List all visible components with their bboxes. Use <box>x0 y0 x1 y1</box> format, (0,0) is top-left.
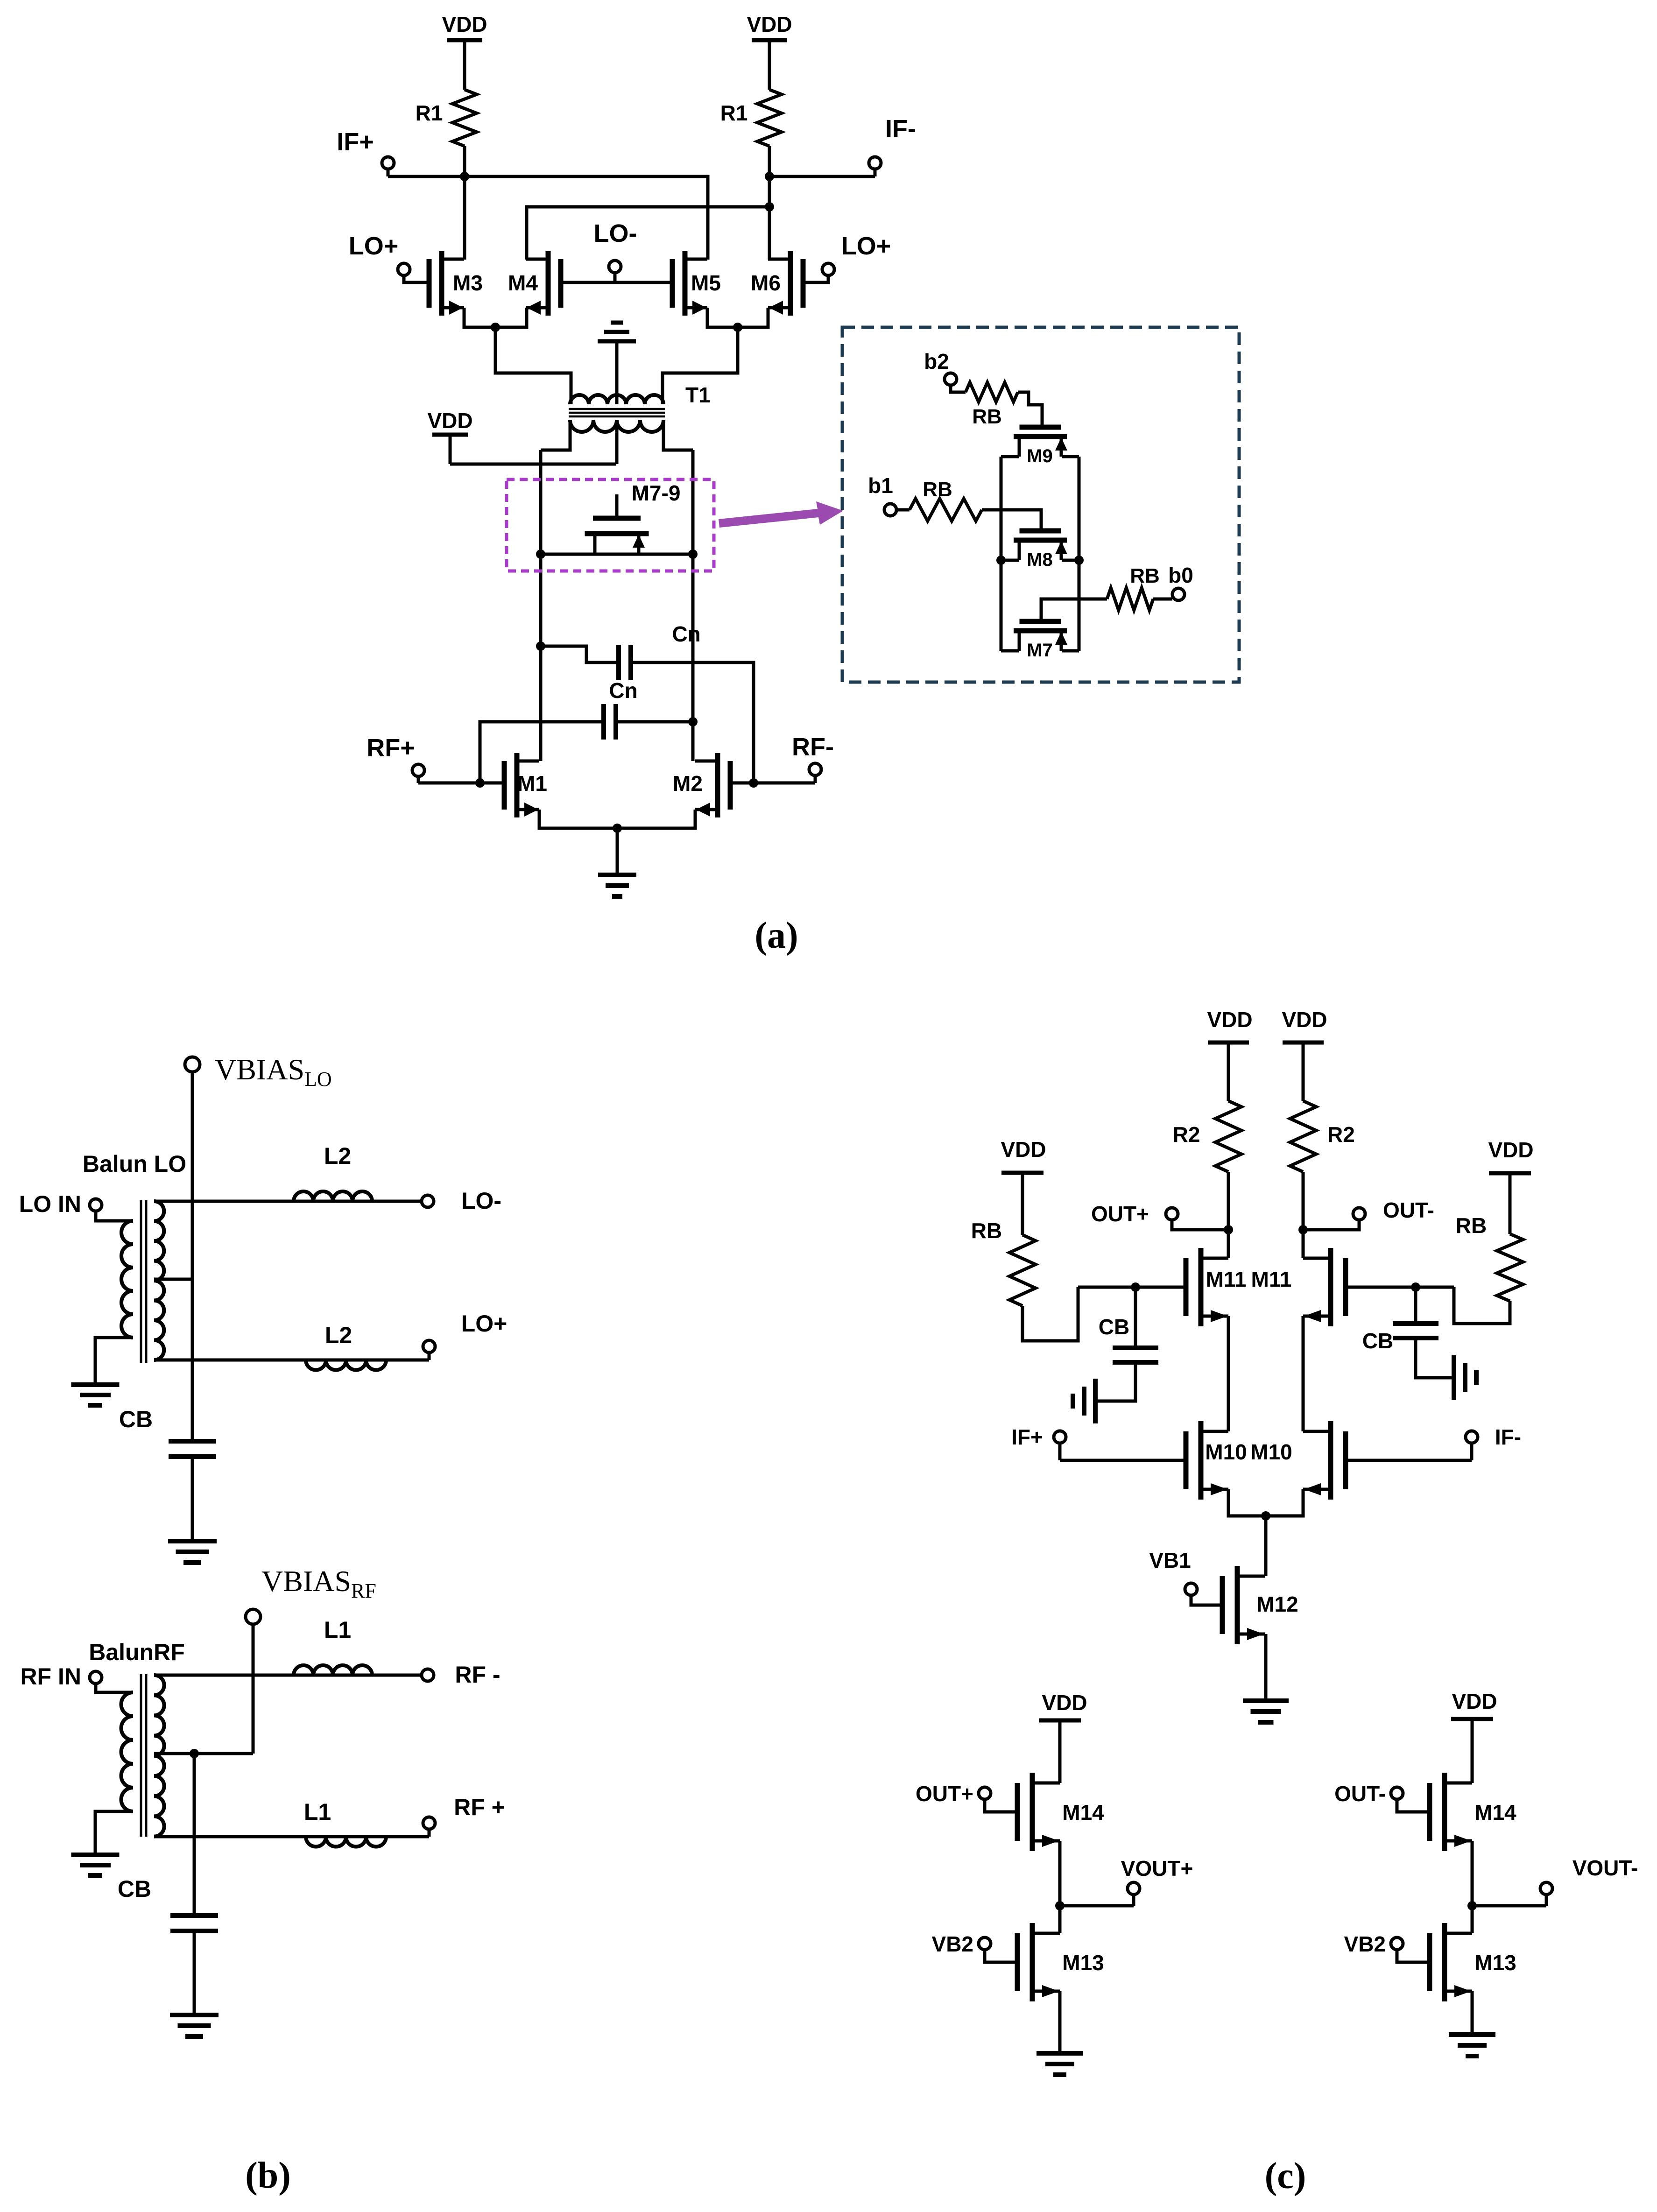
wire LO- gate line M4-M5 <box>561 281 672 284</box>
wire LO+ left gate lead <box>404 275 429 282</box>
transformer T1 core <box>569 408 665 410</box>
wire cross-couple net from M4 drain to right rail <box>527 207 769 260</box>
svg-text:RF IN: RF IN <box>20 1663 81 1690</box>
wire switch bottom net <box>541 553 693 556</box>
svg-text:Cn: Cn <box>609 678 637 703</box>
svg-text:OUT+: OUT+ <box>1091 1202 1149 1226</box>
wire RF- net <box>154 1674 422 1677</box>
wire R2 left to OUT+ node and M11 drain <box>1227 1172 1230 1258</box>
svg-text:CB: CB <box>1362 1329 1393 1353</box>
transformer T1 secondary winding <box>570 420 663 432</box>
node CB tap left junction dot <box>1131 1282 1140 1292</box>
svg-text:CB: CB <box>1099 1315 1129 1339</box>
svg-text:M10: M10 <box>1205 1440 1247 1464</box>
svg-text:M6: M6 <box>751 271 781 295</box>
svg-text:M4: M4 <box>508 271 538 295</box>
wire M8 left lead <box>1001 559 1019 562</box>
resistor RB right <box>1497 1234 1523 1301</box>
svg-text:RB: RB <box>1130 564 1160 587</box>
svg-text:RB: RB <box>923 478 952 501</box>
wire LO IN to balun primary <box>96 1212 133 1221</box>
ground below M12 <box>1243 1698 1289 1703</box>
wire R1 right bottom rail to M6 drain <box>768 146 771 260</box>
terminal VOUT+ <box>1128 1882 1140 1895</box>
terminal RF+ <box>412 764 424 776</box>
node center tap junction dot (CB) <box>190 1749 199 1758</box>
capacitor CB (balun RF) <box>170 1913 218 1918</box>
terminal VBIAS_LO <box>185 1057 200 1072</box>
wire tail node to M12 drain <box>1264 1516 1268 1576</box>
svg-text:M11: M11 <box>1251 1267 1292 1291</box>
node CB tap right junction dot <box>1411 1282 1420 1292</box>
transistor M6 <box>788 251 793 316</box>
wire M13 left source to ground <box>1058 1991 1062 2053</box>
svg-text:Cn: Cn <box>672 622 700 646</box>
wire M11 left source to M10 left drain <box>1227 1316 1230 1431</box>
wire M11 right source to M10 right drain <box>1302 1316 1305 1431</box>
wire VOUT- tap <box>1472 1904 1546 1908</box>
wire RF IN to balun primary <box>96 1685 133 1692</box>
svg-text:IF-: IF- <box>1495 1425 1521 1449</box>
node M1/M2 source junction dot <box>613 824 622 833</box>
svg-text:R2: R2 <box>1327 1122 1355 1147</box>
svg-text:BalunRF: BalunRF <box>89 1639 185 1665</box>
terminal IF+ (section c) <box>1054 1431 1066 1443</box>
node M10 common source junction dot <box>1261 1511 1270 1521</box>
svg-text:M13: M13 <box>1062 1951 1104 1975</box>
svg-text:IF-: IF- <box>885 115 916 143</box>
wire VBIAS_LO vertical <box>191 1072 194 1441</box>
wire VDD to M14 left drain <box>1058 1754 1062 1783</box>
svg-text:VOUT+: VOUT+ <box>1121 1856 1193 1881</box>
node M8 left junction dot <box>996 556 1006 565</box>
wire T1 secondary center tap <box>615 420 619 464</box>
power symbol VDD (R2 right) <box>1302 1043 1305 1101</box>
wire RF+ gate lead <box>418 782 504 785</box>
svg-text:VDD: VDD <box>1001 1137 1046 1162</box>
transistor M10 right <box>1328 1421 1333 1500</box>
svg-text:M1: M1 <box>517 771 547 796</box>
wire RB to M7 gate <box>1041 599 1107 612</box>
terminal LO+ right <box>822 263 834 275</box>
wire IF- net <box>769 175 875 178</box>
svg-text:VDD: VDD <box>1452 1689 1497 1713</box>
node VOUT+ junction dot <box>1055 1901 1065 1910</box>
node IF+ junction dot <box>460 172 469 181</box>
resistor RB left <box>1009 1235 1036 1306</box>
node switch left junction dot <box>536 549 545 559</box>
wire LO+ right gate lead <box>803 275 828 282</box>
node cross-couple junction dot on right rail <box>765 202 774 211</box>
wire left rail (T1 secondary left / switch / Cn / M1 drain) <box>539 450 543 761</box>
terminal LO- <box>422 1195 434 1207</box>
svg-text:RB: RB <box>972 405 1002 428</box>
ground below CB (balun LO) <box>168 1539 217 1543</box>
wire T1 secondary right terminal to right rail <box>663 420 693 450</box>
svg-text:R1: R1 <box>416 101 443 125</box>
wire b1 RB to M8 gate <box>982 510 1041 522</box>
svg-text:M2: M2 <box>673 771 703 796</box>
svg-text:(a): (a) <box>754 915 798 956</box>
svg-text:M3: M3 <box>453 271 483 295</box>
terminal RF IN <box>90 1671 102 1684</box>
power symbol VDD (RB right) <box>1509 1173 1512 1234</box>
balun LO core <box>140 1200 142 1363</box>
power symbol VDD right (section a) <box>768 40 771 90</box>
wire source to ground <box>616 828 619 875</box>
wire M5/M6 source to transformer primary right <box>663 327 738 404</box>
svg-text:R2: R2 <box>1173 1122 1200 1147</box>
terminal OUT+ (buffer left) <box>979 1787 991 1799</box>
wire detail left rail <box>1000 457 1003 651</box>
capacitor CB (balun LO) <box>169 1439 216 1444</box>
svg-text:VDD: VDD <box>1207 1007 1252 1032</box>
wire VDD to M14 right drain <box>1471 1754 1474 1783</box>
svg-text:VOUT-: VOUT- <box>1572 1856 1638 1880</box>
svg-text:OUT-: OUT- <box>1334 1782 1386 1806</box>
wire CB vertical (balun RF) <box>193 1754 196 1916</box>
wire LO- net <box>154 1200 422 1203</box>
transistor M7-9 switch (gate up) <box>615 494 619 518</box>
svg-text:CB: CB <box>118 1876 151 1902</box>
wire balun LO primary bottom to ground <box>95 1338 133 1385</box>
inductor L1 top <box>294 1665 372 1675</box>
svg-text:LO+: LO+ <box>349 232 399 260</box>
svg-text:L2: L2 <box>325 1322 352 1348</box>
wire RF+ net <box>154 1835 429 1839</box>
transistor M14 right <box>1442 1773 1447 1851</box>
transformer T1 primary winding <box>570 395 663 404</box>
terminal IF+ <box>382 157 394 169</box>
svg-text:L2: L2 <box>324 1143 351 1169</box>
wire balun RF primary bottom to ground <box>95 1811 133 1855</box>
svg-text:b1: b1 <box>868 473 893 498</box>
terminal OUT+ <box>1166 1208 1178 1220</box>
svg-text:RF -: RF - <box>455 1662 500 1688</box>
wire ground stem to T1 primary center tap <box>615 341 619 404</box>
wire upper Cn right lead to M2 gate <box>631 662 754 783</box>
node lower Cn right junction dot on right rail <box>688 717 698 726</box>
svg-text:LO IN: LO IN <box>19 1191 81 1217</box>
terminal LO IN <box>90 1199 102 1211</box>
svg-text:LO-: LO- <box>594 219 637 247</box>
transistor M9 (horizontal) <box>1041 419 1044 428</box>
node IF- junction dot <box>765 172 774 181</box>
svg-text:VB2: VB2 <box>1344 1932 1386 1956</box>
capacitor Cn upper <box>616 645 621 680</box>
resistor R1 right <box>757 90 782 146</box>
svg-text:(b): (b) <box>245 2155 291 2196</box>
svg-text:RB: RB <box>971 1219 1002 1243</box>
node M5/M6 source junction dot <box>733 323 742 332</box>
svg-text:b0: b0 <box>1168 563 1193 587</box>
wire CB to ground (balun RF) <box>193 1931 196 2015</box>
ground above transformer T1 (inverted) <box>598 339 636 344</box>
node OUT- junction dot <box>1298 1225 1308 1234</box>
node switch right junction dot <box>688 549 698 559</box>
node M2 gate junction dot <box>749 778 758 788</box>
transistor M7 (horizontal) <box>1040 612 1043 621</box>
wire lower Cn left lead from M1 gate <box>480 722 604 783</box>
wire M3 drain to IF+ node <box>463 176 466 260</box>
wire R2 right to OUT- node and M11 drain <box>1302 1172 1305 1258</box>
wire b2 RB to M9 gate <box>1018 392 1042 419</box>
transistor M1 <box>515 753 520 817</box>
ground below M1/M2 <box>598 873 636 877</box>
balun LO secondary winding <box>154 1201 164 1360</box>
svg-text:VDD: VDD <box>747 12 792 36</box>
wire RB right to gate line <box>1454 1287 1510 1324</box>
wire M14 right source to VOUT- node <box>1471 1841 1474 1933</box>
transistor M8 (horizontal) <box>1040 522 1043 531</box>
power symbol VDD left (section a) <box>463 40 466 90</box>
wire IF+ gate lead (section c) <box>1060 1459 1186 1462</box>
wire RB left to gate line <box>1022 1287 1078 1341</box>
terminal RF- <box>422 1669 434 1681</box>
wire M3/M4 common source net <box>464 308 527 327</box>
resistor R2 left <box>1215 1101 1241 1172</box>
svg-text:VDD: VDD <box>427 409 472 433</box>
transistor M12 <box>1235 1566 1240 1644</box>
svg-text:OUT+: OUT+ <box>916 1782 973 1806</box>
svg-text:M5: M5 <box>691 271 721 295</box>
svg-text:RF-: RF- <box>792 733 834 761</box>
svg-text:IF+: IF+ <box>337 128 374 156</box>
wire balun LO center tap <box>154 1278 192 1281</box>
svg-text:VDD: VDD <box>1042 1691 1087 1715</box>
transistor M4 <box>546 251 551 316</box>
terminal b0 <box>1172 588 1185 600</box>
wire M1/M2 common source net <box>539 810 695 828</box>
power symbol VDD (M14 right) <box>1471 1719 1474 1754</box>
svg-text:VB2: VB2 <box>932 1932 973 1956</box>
transistor M14 left <box>1030 1773 1035 1851</box>
terminal IF- <box>869 157 881 169</box>
svg-text:LO+: LO+ <box>461 1310 508 1337</box>
navy dashed detail box <box>842 327 1239 682</box>
wire R1 bottom to IF+ node <box>463 146 466 176</box>
terminal OUT- <box>1353 1208 1365 1220</box>
terminal OUT- (buffer right) <box>1391 1787 1403 1799</box>
wire M10 common source net <box>1228 1489 1303 1516</box>
capacitor CB left <box>1134 1287 1137 1348</box>
wire IF- gate lead (section c) <box>1346 1459 1472 1462</box>
wire M3/M4 source to transformer primary left <box>495 327 571 404</box>
wire M7 left lead <box>1001 649 1019 653</box>
svg-text:M9: M9 <box>1027 446 1053 466</box>
wire CB left to ground <box>1095 1362 1135 1401</box>
balun RF secondary winding <box>154 1675 164 1837</box>
transistor M13 left <box>1030 1923 1035 2001</box>
svg-text:VDD: VDD <box>1488 1138 1533 1162</box>
node M1 gate junction dot <box>475 778 485 788</box>
wire LO+ net <box>154 1359 429 1362</box>
ground CB left (sideways) <box>1093 1379 1098 1423</box>
svg-text:CB: CB <box>119 1406 153 1432</box>
svg-text:M7: M7 <box>1027 640 1053 661</box>
ground balun LO <box>71 1382 120 1387</box>
terminal b1 <box>884 504 896 516</box>
terminal RF+ <box>423 1817 435 1829</box>
node upper Cn left junction dot <box>536 641 545 651</box>
inductor L2 bottom <box>306 1360 386 1370</box>
wire M8 right lead <box>1062 559 1079 562</box>
node OUT+ junction dot <box>1224 1225 1233 1234</box>
svg-text:RF +: RF + <box>454 1794 505 1820</box>
wire M11 left gate line <box>1078 1286 1186 1289</box>
svg-text:LO+: LO+ <box>841 232 891 260</box>
svg-text:M14: M14 <box>1474 1800 1516 1825</box>
svg-text:(c): (c) <box>1265 2156 1306 2197</box>
svg-text:M10: M10 <box>1250 1440 1292 1464</box>
terminal VB1 <box>1185 1583 1197 1595</box>
wire VDD to center tap <box>450 463 616 466</box>
node M8 right junction dot <box>1074 556 1084 565</box>
capacitor Cn lower <box>601 704 606 740</box>
transistor M5 <box>683 251 688 316</box>
wire IF+ net horizontal and drop to M5 drain <box>388 176 708 260</box>
wire upper Cn left lead <box>541 646 619 662</box>
wire M11 right gate line <box>1346 1286 1454 1289</box>
svg-text:L1: L1 <box>324 1617 351 1643</box>
wire M9 left lead to left rail <box>1001 455 1019 458</box>
wire CB to ground <box>191 1457 194 1541</box>
wire M13 right source to ground <box>1471 1991 1474 2035</box>
wire M12 source to ground <box>1264 1634 1268 1701</box>
terminal VOUT- <box>1540 1882 1552 1895</box>
wire VBIAS_RF vertical to center tap <box>252 1624 255 1754</box>
terminal b2 <box>945 373 957 385</box>
wire M7 right lead <box>1062 649 1079 653</box>
ground balun RF <box>71 1853 120 1857</box>
wire M9 right lead to right rail <box>1062 455 1079 458</box>
wire detail right rail <box>1078 457 1081 651</box>
svg-text:RB: RB <box>1456 1213 1487 1238</box>
svg-text:T1: T1 <box>685 383 711 407</box>
terminal VBIAS_RF <box>246 1609 261 1624</box>
inductor L2 top <box>294 1191 372 1201</box>
node M3/M4 source junction dot <box>491 323 500 332</box>
balun RF primary winding <box>121 1692 134 1811</box>
wire M14 left source to VOUT+ node <box>1058 1841 1062 1933</box>
wire CB right to ground <box>1416 1338 1454 1378</box>
wire balun RF center tap <box>154 1752 253 1755</box>
power symbol VDD (M14 left) <box>1058 1720 1062 1754</box>
svg-text:RF+: RF+ <box>367 734 415 762</box>
power symbol VDD mid (T1 center tap) <box>449 435 452 464</box>
wire b0 to RB <box>1153 598 1172 601</box>
balun RF core <box>140 1674 142 1837</box>
svg-text:M11: M11 <box>1206 1267 1247 1291</box>
svg-text:M12: M12 <box>1256 1592 1298 1616</box>
purple annotation arrow to detail box <box>719 501 843 528</box>
power symbol VDD (RB left) <box>1021 1173 1024 1235</box>
svg-text:M8: M8 <box>1027 549 1053 570</box>
terminal LO- <box>609 261 621 273</box>
terminal VB2 (right) <box>1391 1937 1403 1950</box>
wire T1 secondary left terminal to left rail <box>541 420 570 450</box>
wire right rail (T1 secondary right / switch / Cn / M2 drain) <box>691 450 695 761</box>
ground below CB (balun RF) <box>170 2013 219 2017</box>
capacitor CB right <box>1414 1287 1417 1324</box>
node VOUT- junction dot <box>1467 1901 1477 1910</box>
terminal LO+ left <box>398 263 410 275</box>
svg-text:Balun LO: Balun LO <box>83 1151 186 1177</box>
transistor M11 left <box>1199 1248 1204 1326</box>
svg-text:VDD: VDD <box>442 12 487 36</box>
svg-text:LO-: LO- <box>461 1188 501 1214</box>
ground CB right (sideways) <box>1452 1355 1456 1400</box>
svg-text:L1: L1 <box>304 1799 331 1825</box>
transistor M3 <box>439 251 444 316</box>
terminal IF- (section c) <box>1466 1431 1478 1443</box>
wire RF- gate lead <box>730 782 815 785</box>
svg-text:M14: M14 <box>1062 1800 1104 1825</box>
terminal LO+ <box>423 1340 435 1353</box>
ground below M13 left <box>1037 2051 1083 2056</box>
svg-text:IF+: IF+ <box>1011 1425 1043 1449</box>
terminal VB2 (left) <box>979 1937 991 1950</box>
power symbol VDD (R2 left) <box>1227 1043 1230 1101</box>
resistor RB (b0) <box>1107 588 1153 610</box>
transistor M13 right <box>1442 1923 1447 2001</box>
wire VOUT+ tap <box>1060 1904 1134 1908</box>
transistor M2 <box>715 753 720 817</box>
wire M5/M6 common source net <box>707 308 768 327</box>
ground below M13 right <box>1449 2032 1495 2037</box>
resistor R1 left <box>452 90 477 146</box>
resistor RB (b1) <box>896 508 910 512</box>
wire lower Cn right lead <box>616 720 693 724</box>
inductor L1 bottom <box>306 1837 386 1847</box>
transistor M11 right <box>1328 1248 1333 1326</box>
svg-text:M13: M13 <box>1474 1951 1516 1975</box>
balun LO primary winding <box>121 1221 133 1338</box>
resistor R2 right <box>1290 1101 1316 1172</box>
svg-text:b2: b2 <box>924 349 949 373</box>
svg-text:VDD: VDD <box>1282 1007 1327 1032</box>
terminal RF- <box>809 763 821 775</box>
wire b2 to RB <box>951 387 966 392</box>
transistor M10 left <box>1199 1421 1204 1500</box>
purple dashed selection box around M7-9 <box>507 479 714 571</box>
svg-text:R1: R1 <box>720 101 748 125</box>
resistor RB (b2) <box>966 382 1018 402</box>
svg-text:VB1: VB1 <box>1149 1548 1191 1572</box>
svg-text:OUT-: OUT- <box>1383 1198 1434 1222</box>
svg-text:M7-9: M7-9 <box>632 481 681 505</box>
